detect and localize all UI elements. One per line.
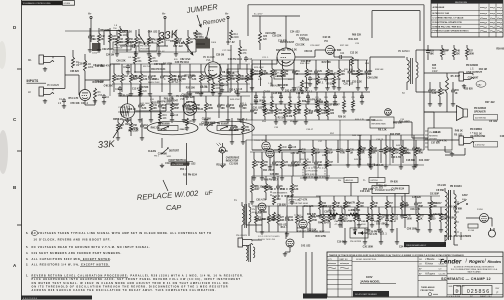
svg-text:470K: 470K [153,61,159,63]
zone tick y225 [17,224,22,226]
pot box VOLUME [139,43,157,51]
title block frame [327,252,503,297]
wire recovery [394,121,412,123]
svg-text:C24: C24 [340,53,345,55]
svg-text:C38 PN 0217: C38 PN 0217 [201,123,216,125]
wire reverb jacks [241,232,243,238]
ot band component 4 [400,135,402,146]
svg-text:5-12-86: 5-12-86 [439,273,447,275]
svg-text:R34 2.2K: R34 2.2K [287,49,297,52]
reverb LED [385,109,392,116]
svg-text:C42: C42 [101,35,106,38]
resistor R8 [149,55,152,64]
diode bridge [350,228,368,238]
wire bus y60 [252,59,368,61]
svg-text:2.: 2. [26,263,28,267]
revision table header bar [431,0,503,3]
svg-text:C58 56K: C58 56K [139,87,149,89]
ground LED [221,164,223,166]
capacitor C14 [221,82,223,84]
note2 underline [80,265,110,267]
svg-text:R36 4.7K: R36 4.7K [270,84,280,87]
svg-text:PN 048881: PN 048881 [470,128,483,131]
preamp lower band component 9 [227,96,229,103]
handwritten 33K mid arrow [113,121,124,138]
resistor R3 [94,88,97,99]
svg-text:R23 470K: R23 470K [254,67,264,69]
wire OT sec top [415,50,417,58]
svg-text:PN 018898: PN 018898 [158,124,170,126]
svg-text:C33: C33 [373,148,378,150]
mid low component 7 [318,104,320,108]
svg-text:.022: .022 [330,113,335,115]
resistor R19 [239,46,242,56]
svg-text:R40: R40 [283,147,288,149]
right band component 3 [452,82,454,88]
wire to OT [352,73,370,75]
handwritten REMOVE arrow [205,27,209,40]
svg-text:TREBLE: TREBLE [114,48,123,50]
ground headphone [451,152,453,154]
parts col divider [337,257,339,298]
wire vert x390 [389,135,391,165]
wire V2 plate [285,16,287,48]
svg-text:10K: 10K [254,74,259,76]
svg-text:R45: R45 [208,104,213,107]
svg-text:R45 1/2W: R45 1/2W [315,235,326,238]
svg-text:R61 10K: R61 10K [393,122,403,124]
svg-text:C27 1K: C27 1K [205,78,213,80]
svg-text:R48: R48 [456,50,461,53]
wire horizontal y178 [300,177,344,179]
wire A+ drop [350,183,352,197]
svg-text:C-: C- [363,178,366,182]
svg-text:C58 470K: C58 470K [181,94,192,97]
svg-text:C32 68K: C32 68K [332,50,342,52]
wire R7 [134,51,136,55]
svg-text:R32: R32 [368,71,373,73]
capacitor net C33 [280,92,282,96]
svg-text:10K: 10K [119,42,124,44]
svg-text:C62 2.2K: C62 2.2K [122,31,132,33]
svg-text:C26 68K: C26 68K [270,174,280,176]
svg-text:C37: C37 [329,162,334,164]
svg-text:C61 2.2K: C61 2.2K [304,206,314,208]
pot hatched 33K [120,104,134,118]
wire R20 [139,88,141,96]
input jack J1 [39,55,44,64]
wire footswitch drop 2 [186,143,188,185]
svg-text:C14: C14 [444,50,449,53]
svg-text:R68 1K: R68 1K [128,109,136,111]
svg-text:C34 470K: C34 470K [399,245,410,248]
svg-text:C46 22K: C46 22K [500,135,504,138]
svg-text:R59: R59 [284,71,289,73]
wire bus y232 [256,231,330,233]
wire bus y165 [270,164,424,166]
svg-text:R11: R11 [221,105,226,107]
wire R8 [149,64,151,72]
svg-text:R37 10K: R37 10K [340,45,349,47]
resistor R7 [134,55,137,64]
ground C22 [309,82,311,84]
svg-text:470K: 470K [230,78,236,81]
svg-text:C41 .02: C41 .02 [172,75,181,78]
handwritten 33K top arrow [183,41,193,55]
ps band2 component 9 [429,207,431,213]
svg-text:C37 .02: C37 .02 [285,196,294,198]
svg-text:F PER ECO 2248 / UPDATE NOTES: F PER ECO 2248 / UPDATE NOTES 6 [433,30,470,33]
svg-text:C7 100K: C7 100K [402,153,412,155]
ground jack J2 [44,99,46,101]
svg-text:R39 56K: R39 56K [375,69,384,71]
ps band2 component 3 [354,207,356,213]
resistor net R68 [325,92,327,100]
wire jack2 out [53,88,65,90]
svg-text:C45 PN 0134: C45 PN 0134 [228,58,243,61]
svg-text:0.47Ω 8Ω: 0.47Ω 8Ω [475,145,485,147]
resistor R20 [139,88,142,96]
ps band2 component 6 [391,207,393,213]
driver band component 9 [392,140,394,147]
svg-text:R20 .1: R20 .1 [125,124,133,126]
svg-text:R60 22K: R60 22K [352,35,362,37]
svg-text:470K: 470K [280,188,286,191]
svg-text:R50: R50 [277,199,282,201]
svg-text:P-810: P-810 [477,209,484,211]
svg-text:R25 .022: R25 .022 [186,163,196,165]
svg-text:C28 .02: C28 .02 [367,164,376,166]
svg-text:C29: C29 [186,105,191,107]
svg-text:C17 .1: C17 .1 [317,83,325,85]
mid low component 5 [294,104,296,108]
wire bus y104 [250,103,340,105]
svg-text:R43 100K: R43 100K [254,100,265,103]
circled 9A2 [476,81,486,87]
svg-text:C20: C20 [115,89,120,91]
preamp mid band component 9 [189,64,191,74]
revision table frame [431,0,503,37]
ps band component 5 [371,196,373,201]
resistor R2 [84,60,87,71]
driver band component 10 [402,140,404,147]
svg-text:R51: R51 [329,71,334,73]
preamp mid band component 4 [140,64,142,74]
svg-text:250P: 250P [328,152,334,154]
svg-text:C12 1K: C12 1K [350,52,358,54]
svg-text:C41 250P: C41 250P [301,60,312,63]
svg-text:R28 1M: R28 1M [195,93,203,95]
svg-text:C24 .022: C24 .022 [290,31,300,34]
svg-text:R56: R56 [129,39,134,41]
power supply box [372,186,409,194]
svg-text:22K: 22K [288,79,292,81]
svg-text:C55: C55 [245,127,250,129]
svg-text:R88: R88 [263,36,268,38]
svg-text:M1: M1 [28,58,32,62]
svg-text:1M: 1M [350,152,353,154]
svg-text:C4 .047: C4 .047 [128,57,136,59]
wire band mid [120,95,128,97]
mid band2 component 10 [349,60,351,69]
preamp deep band component 2 [130,118,132,123]
ground Q9 [284,252,286,254]
title block top bar [327,256,503,258]
svg-text:C10: C10 [297,110,302,112]
box MASTER [274,70,294,79]
preamp upper component 3 [135,30,137,37]
svg-text:R43 1/2W: R43 1/2W [321,205,332,208]
reverb transformer T3 core [244,204,246,228]
driver band component 7 [369,140,371,147]
svg-text:uF: uF [205,190,214,197]
ground jack J1 [44,67,46,69]
svg-text:250P: 250P [308,113,314,115]
wire bottom drop 1 [305,252,307,294]
svg-text:C49 10K: C49 10K [95,80,105,83]
svg-text:R13: R13 [315,150,320,152]
wire to V1 grid [135,71,150,73]
svg-text:450V: 450V [361,224,366,226]
capacitor C5 [131,45,133,47]
mid band2 component 3 [271,60,273,69]
ps band2 component 5 [378,207,380,213]
svg-text:REVISIONS: REVISIONS [455,2,467,4]
svg-text:R4 820: R4 820 [193,33,201,36]
wire OT sec bottom [415,86,417,92]
svg-text:ALL CAPACITORS 600V MIN. EXC: ALL CAPACITORS 600V MIN. EXCEPT NOTED. [32,257,112,261]
svg-text:ALONG THIS LINE: ALONG THIS LINE [258,238,276,241]
bottom small bar [303,294,327,299]
driver band component 2 [312,140,314,147]
svg-text:R39 250P: R39 250P [342,221,353,223]
ground R17 [186,126,188,128]
svg-text:R44: R44 [230,104,235,107]
svg-text:1K: 1K [455,93,458,95]
wire C24 [334,56,340,58]
svg-text:C16 2.2K: C16 2.2K [360,191,370,193]
wire Q1 cathode [84,101,86,106]
wire bottom drop 2 [311,252,313,294]
svg-text:049 SHOT NUMBERS ARE FENDER PA: 049 SHOT NUMBERS ARE FENDER PART NUMBERS… [32,251,122,255]
wire bus y140 [246,139,424,141]
svg-text:R51 4.7K: R51 4.7K [68,97,78,100]
svg-text:C42 820: C42 820 [300,38,310,41]
svg-text:C6 .022: C6 .022 [489,121,498,123]
svg-text:250K A: 250K A [180,128,188,131]
svg-text:C54 .1: C54 .1 [180,168,188,171]
svg-text:R27: R27 [280,217,285,219]
svg-text:C33 .0047: C33 .0047 [419,159,430,162]
svg-text:R34: R34 [322,202,327,205]
svg-text:C11 1K: C11 1K [296,93,304,95]
svg-text:C62 47uF: C62 47uF [180,58,191,61]
svg-text:C66 68K: C66 68K [453,208,463,210]
svg-text:TIP41 TIP42: TIP41 TIP42 [254,140,267,142]
svg-text:C65 10K: C65 10K [70,103,80,105]
speaker symbol [463,109,468,117]
svg-text:TOLERANCE CONTROL DWG: TOLERANCE CONTROL DWG [23,2,51,5]
svg-text:R8 .022: R8 .022 [342,81,351,83]
reverb lower component 2 [268,206,270,215]
svg-text:2.2K: 2.2K [142,108,147,110]
svg-text:C13 1M: C13 1M [284,116,292,118]
wire R2 [84,54,86,60]
resistor R50 [273,196,276,205]
resistor net R64 [289,92,291,100]
ground C42 [358,223,360,225]
svg-text:Rhodes: Rhodes [488,260,502,264]
mid low component 2 [264,104,266,108]
svg-text:FOOTSWITCH: FOOTSWITCH [169,158,187,162]
wire input bus [64,57,66,89]
svg-text:C47 .02: C47 .02 [226,41,235,44]
wire jack1 out [53,56,65,58]
svg-text:C38 4.7K: C38 4.7K [280,219,290,222]
svg-text:C30 10: C30 10 [118,107,126,109]
svg-text:10K: 10K [153,108,158,110]
preamp mid band component 5 [149,64,151,74]
ps band2 component 2 [341,207,343,213]
note underline [32,276,129,278]
svg-text:R62 820: R62 820 [229,130,239,132]
svg-text:R36: R36 [330,110,335,112]
resistor R62 [348,213,358,216]
reverb upper component 5 [292,152,294,160]
svg-text:R.Heirn: R.Heirn [425,263,434,266]
svg-text:1K: 1K [120,128,123,130]
svg-text:C38 820: C38 820 [277,205,287,207]
resistor net R62 [271,92,273,100]
preamp mid band component 11 [208,64,210,74]
svg-text:ACROSS R28 SHOULD CAUSE THE OS: ACROSS R28 SHOULD CAUSE THE OSCILLATION … [32,289,217,292]
zone tick y69 [17,68,22,70]
svg-text:C57: C57 [276,162,281,164]
wire footswitch drop 1 [161,138,163,148]
svg-text:R41 PN 0217: R41 PN 0217 [262,218,277,221]
svg-text:R52 820: R52 820 [152,102,162,104]
ps cap C43 [371,215,373,220]
svg-text:C41: C41 [153,104,158,107]
wire pot top [127,96,129,104]
svg-text:CAP: CAP [166,203,181,212]
svg-text:C25 22K: C25 22K [412,197,422,199]
svg-text:R50: R50 [256,162,261,164]
wire bus y84 [112,83,250,85]
svg-text:C18 2.2K: C18 2.2K [374,165,384,167]
svg-text:TO ALL 6.3V HEATERS: TO ALL 6.3V HEATERS [444,235,471,238]
svg-text:C20 .022: C20 .022 [373,188,383,190]
svg-text:3.: 3. [26,257,28,261]
svg-text:R31: R31 [164,76,169,78]
svg-text:C36: C36 [152,76,157,78]
node stage2 [134,71,136,73]
svg-text:LF: LF [28,90,31,94]
svg-text:R48: R48 [336,202,341,205]
svg-text:R64 10K: R64 10K [186,101,196,104]
svg-text:C12: C12 [124,76,129,78]
svg-text:C14 4.7K: C14 4.7K [129,128,139,131]
svg-text:C60 22K: C60 22K [116,60,126,62]
svg-text:R42: R42 [351,70,356,73]
wire plug [488,217,492,219]
sig rows [418,260,447,262]
svg-text:R15: R15 [455,90,460,92]
ground R3 [94,99,96,101]
svg-text:C54 56K: C54 56K [202,117,212,120]
reverb lower component 3 [277,206,279,215]
svg-text:4.: 4. [26,251,28,255]
svg-text:68K: 68K [221,108,226,110]
svg-text:220K: 220K [88,67,94,69]
svg-text:1M: 1M [254,113,257,115]
preamp lower band component 6 [193,96,195,103]
svg-text:PN 023936: PN 023936 [466,64,479,67]
line out band component 2 [441,45,443,48]
switch S1 [458,200,466,204]
svg-text:R51: R51 [442,90,447,92]
svg-text:R43 470K: R43 470K [230,99,240,101]
ground C2 [103,100,105,102]
wire V2 grid [251,64,253,92]
handwritten replace arrow [163,180,168,191]
svg-text:R66 PN 0217: R66 PN 0217 [264,179,279,181]
ps cap C42 [358,215,360,220]
svg-text:C45 68K: C45 68K [273,92,283,95]
capacitor C24 [338,56,340,58]
svg-text:TAMPER OF TRACE DETAILS DWG SU: TAMPER OF TRACE DETAILS DWG SURF IS AS I… [329,254,464,257]
svg-text:INPUTS: INPUTS [27,79,39,83]
wire R33 down [351,66,353,74]
svg-text:R42 250P: R42 250P [390,133,401,136]
svg-text:10 O'CLOCK, REVERB AND VIB BOO: 10 O'CLOCK, REVERB AND VIB BOOST OFF. [34,238,111,242]
artificial center tap box [287,197,320,206]
ground C43 [371,223,373,225]
svg-text:R51 47uF: R51 47uF [237,119,248,122]
wire mid bus [252,91,370,93]
svg-text:C21 .1: C21 .1 [262,57,269,59]
svg-text:R57 250P: R57 250P [184,76,195,78]
svg-text:2.2K: 2.2K [432,93,437,95]
svg-text:C54 10K: C54 10K [93,64,103,67]
svg-text:C63 .0047: C63 .0047 [376,222,387,225]
svg-text:R16: R16 [163,115,168,117]
svg-text:R4 820: R4 820 [390,180,398,183]
svg-text:R11: R11 [287,110,292,112]
svg-text:025856: 025856 [64,3,72,5]
wire R45 [446,73,448,77]
ps band2 component 7 [404,207,406,213]
svg-text:PN 013425: PN 013425 [47,84,60,87]
svg-text:100K: 100K [469,53,475,55]
svg-text:C58: C58 [196,105,201,107]
wire Q1 base [78,75,80,95]
wire bus y112 [118,111,250,113]
svg-text:R11 1K: R11 1K [474,134,482,136]
svg-text:R19: R19 [321,110,326,112]
svg-text:R59 68K: R59 68K [496,49,504,51]
svg-text:R49 1K: R49 1K [354,159,362,161]
wire bus y52a [112,51,196,53]
svg-text:ALL RESISTORS 1/4 W, 5%, EXC: ALL RESISTORS 1/4 W, 5%, EXCEPT NOTED. [32,263,110,267]
svg-text:R49 .022: R49 .022 [348,38,358,41]
svg-text:R27 .022: R27 .022 [485,102,495,104]
svg-text:R13: R13 [308,71,313,73]
svg-text:R46 68K: R46 68K [258,211,268,214]
ground C1 [63,104,65,106]
svg-text:68K: 68K [162,108,167,110]
wire R19 [239,40,241,46]
